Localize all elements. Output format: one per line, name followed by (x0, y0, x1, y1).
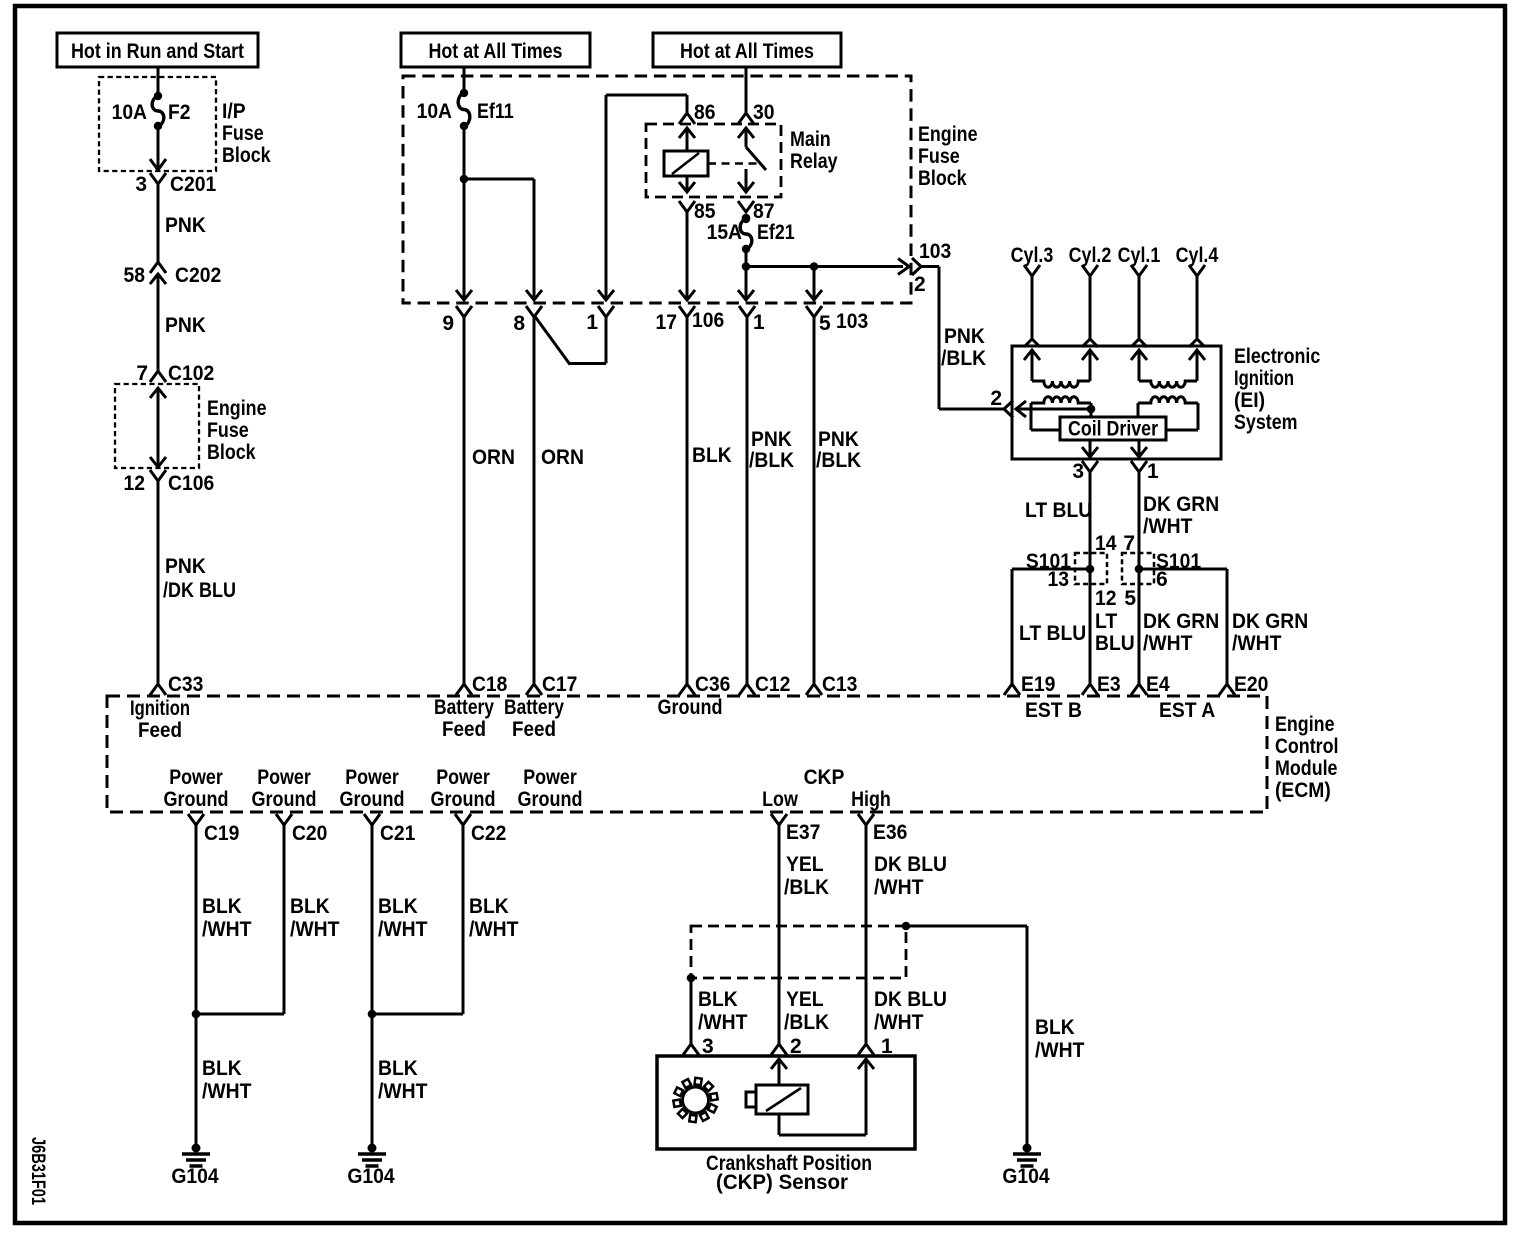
connector E20 (1219, 673, 1268, 696)
svg-text:Cyl.3: Cyl.3 (1011, 244, 1054, 267)
svg-text:DK BLU: DK BLU (874, 988, 947, 1011)
svg-text:C19: C19 (204, 822, 239, 845)
svg-text:7: 7 (1123, 532, 1135, 555)
svg-text:PNK: PNK (165, 314, 206, 337)
svg-text:Control: Control (1275, 735, 1339, 758)
wire DK GRN/WHT pin1 to S101 (1139, 472, 1219, 684)
svg-text:LT BLU: LT BLU (1019, 622, 1086, 645)
svg-text:Ground: Ground (431, 788, 496, 811)
svg-text:Battery: Battery (504, 696, 564, 719)
svg-text:Cyl.4: Cyl.4 (1176, 244, 1219, 267)
svg-text:C13: C13 (822, 673, 857, 696)
ground G104 right (1002, 1144, 1050, 1189)
svg-text:F2: F2 (168, 101, 191, 124)
svg-text:BLK: BLK (698, 988, 738, 1011)
svg-text:Battery: Battery (434, 696, 494, 719)
svg-text:Block: Block (222, 144, 271, 167)
svg-text:5: 5 (819, 312, 831, 335)
connector E36 (858, 814, 907, 844)
svg-text:ORN: ORN (472, 446, 515, 469)
ECM pin label Power Ground 5 (518, 766, 583, 811)
svg-text:58: 58 (124, 264, 146, 287)
wire ORN pin8 to C17 (534, 317, 584, 684)
svg-text:C20: C20 (292, 822, 327, 845)
ignition coil primary right (1138, 397, 1198, 430)
wire branch to pin 8 (464, 179, 542, 300)
svg-text:C102: C102 (168, 362, 214, 385)
wire into engine fuse block (463, 67, 466, 92)
ECM pin label Ignition Feed (130, 697, 190, 742)
svg-text:DK GRN: DK GRN (1232, 610, 1308, 633)
svg-text:17: 17 (656, 311, 678, 334)
svg-text:3: 3 (1072, 460, 1084, 483)
svg-text:2: 2 (990, 387, 1002, 410)
svg-text:Fuse: Fuse (207, 419, 249, 442)
junction C19/C20 (192, 1010, 284, 1019)
svg-text:E20: E20 (1234, 673, 1268, 696)
connector E4 (1131, 673, 1170, 696)
CKP shield dashed box (691, 926, 906, 978)
ECM pin label Power Ground 3 (340, 766, 405, 811)
svg-text:EST B: EST B (1025, 699, 1082, 722)
svg-text:Hot at All Times: Hot at All Times (680, 39, 814, 63)
svg-text:Engine: Engine (207, 397, 267, 420)
engine fuse block label (918, 123, 978, 190)
svg-text:BLK: BLK (469, 895, 509, 918)
svg-text:EST A: EST A (1159, 699, 1215, 722)
relay dashed actuator link (708, 162, 758, 165)
svg-text:/WHT: /WHT (202, 1080, 252, 1103)
EI output pin 3 (1072, 440, 1098, 483)
svg-text:Ef11: Ef11 (477, 100, 514, 123)
svg-text:/WHT: /WHT (202, 918, 252, 941)
EI internal arrow Cyl.1 (1131, 350, 1147, 381)
svg-text:Hot in Run and Start: Hot in Run and Start (71, 39, 244, 63)
svg-text:/BLK: /BLK (941, 347, 986, 370)
connector C13 (806, 673, 857, 696)
wire YEL/BLK E37 (779, 825, 829, 1044)
svg-text:BLK: BLK (290, 895, 330, 918)
junction Ef21 to 103 (742, 262, 751, 271)
wire BLK/WHT C20 (284, 825, 340, 1014)
svg-text:Feed: Feed (512, 718, 556, 741)
title box Hot at All Times (right) (653, 33, 841, 67)
spark plug lead Cyl.1 (1118, 244, 1161, 347)
svg-text:7: 7 (136, 362, 148, 385)
wire PNK C202 to C102 (158, 274, 206, 371)
svg-text:Ground: Ground (164, 788, 229, 811)
svg-text:Power: Power (169, 766, 223, 789)
wire PNK C201 to C202 (158, 184, 206, 262)
connector C36 (679, 673, 730, 696)
wire to relay pin 30 (745, 67, 748, 113)
connector C19 (188, 814, 239, 845)
engine fuse block dashed box (403, 76, 911, 303)
ECM pin label Battery Feed C17 (504, 696, 564, 741)
svg-text:/WHT: /WHT (469, 918, 519, 941)
svg-text:/WHT: /WHT (1143, 515, 1193, 538)
wire PNK/BLK pin5 to C13 (814, 317, 861, 684)
svg-text:Power: Power (257, 766, 311, 789)
wire BLK/WHT C19 (196, 825, 252, 1150)
svg-text:Ground: Ground (252, 788, 317, 811)
svg-text:C36: C36 (695, 673, 730, 696)
svg-text:Hot at All Times: Hot at All Times (429, 39, 563, 63)
svg-text:85: 85 (694, 200, 716, 223)
svg-text:C21: C21 (380, 822, 416, 845)
CKP pickup sensor symbol (746, 1085, 808, 1114)
svg-text:/WHT: /WHT (1143, 632, 1193, 655)
svg-text:DK GRN: DK GRN (1143, 493, 1219, 516)
svg-text:Electronic: Electronic (1234, 345, 1321, 368)
svg-text:C18: C18 (472, 673, 508, 696)
svg-text:Ground: Ground (340, 788, 405, 811)
wire LT BLU splice to E3 (1095, 610, 1135, 655)
CKP pin 1 connector (858, 1044, 874, 1055)
junction shield to ground wire (902, 922, 911, 931)
svg-text:Relay: Relay (790, 150, 838, 173)
svg-text:10A: 10A (112, 101, 147, 124)
wire BLK/WHT shield to G104 (906, 926, 1085, 1150)
svg-text:DK GRN: DK GRN (1143, 610, 1219, 633)
fuse box pin 9 (442, 306, 472, 335)
svg-text:System: System (1234, 411, 1298, 434)
EI internal arrow Cyl.3 (1024, 350, 1040, 381)
ignition coil primary left (1031, 397, 1091, 430)
svg-text:Cyl.2: Cyl.2 (1069, 244, 1112, 267)
connector C21 (364, 814, 416, 845)
CKP internal wire sensor to pin 1 (779, 1114, 866, 1135)
svg-text:Ef21: Ef21 (757, 221, 795, 244)
svg-text:CKP: CKP (804, 766, 845, 789)
svg-text:1: 1 (1147, 460, 1159, 483)
wire PNK/DK BLU C106 to ECM C33 (158, 481, 236, 684)
connector C12 (739, 673, 790, 696)
svg-text:Fuse: Fuse (918, 145, 960, 168)
connector C33 at ECM (150, 673, 203, 696)
engine fuse block (left) label (207, 397, 267, 464)
wire to connector 103 (746, 265, 903, 268)
svg-text:106: 106 (692, 309, 724, 332)
I/P fuse block dashed box (99, 77, 216, 171)
fuse F2 10A (112, 92, 191, 130)
connector C22 (455, 814, 506, 845)
svg-text:Main: Main (790, 128, 831, 151)
svg-text:10A: 10A (417, 100, 452, 123)
svg-text:87: 87 (753, 200, 775, 223)
svg-text:/DK BLU: /DK BLU (163, 579, 236, 602)
svg-text:Power: Power (523, 766, 577, 789)
connector E3 (1082, 673, 1121, 696)
wire PNK/BLK pin1 to C12 (747, 317, 794, 684)
wire through left engine fuse block (150, 388, 166, 467)
CKP internal arrow pin 1 (858, 1059, 874, 1135)
svg-text:C33: C33 (168, 673, 203, 696)
CKP pin 1 wire label (874, 988, 947, 1058)
svg-text:8: 8 (513, 312, 525, 335)
svg-text:5: 5 (1124, 587, 1136, 610)
EI output pin 1 (1131, 440, 1159, 483)
EI pin 2 connector (990, 387, 1013, 418)
I/P fuse block label (222, 100, 271, 167)
svg-text:PNK: PNK (165, 555, 206, 578)
svg-text:/BLK: /BLK (784, 876, 829, 899)
wire PNK/BLK 103 to EI pin 2 (920, 267, 1005, 410)
svg-text:Module: Module (1275, 757, 1338, 780)
svg-text:/BLK: /BLK (784, 1011, 829, 1034)
wire BLK/WHT C22 (463, 825, 519, 1014)
svg-text:/WHT: /WHT (1232, 632, 1282, 655)
svg-text:(ECM): (ECM) (1275, 779, 1331, 802)
spark plug lead Cyl.4 (1176, 244, 1219, 347)
svg-text:G104: G104 (171, 1165, 219, 1188)
svg-text:Ignition: Ignition (130, 697, 190, 720)
relay pin 87 connector (738, 200, 775, 223)
svg-text:14: 14 (1095, 532, 1117, 555)
svg-text:E4: E4 (1146, 673, 1170, 696)
wire BLK/WHT C21 (372, 825, 428, 1150)
junction branch to pin 5 (806, 262, 822, 300)
svg-text:Ground: Ground (658, 696, 723, 719)
svg-text:/WHT: /WHT (1035, 1039, 1085, 1062)
wire BLK pin17 to C36 (687, 317, 732, 684)
svg-text:6: 6 (1156, 568, 1168, 591)
wire from title box to fuse F2 (157, 67, 160, 95)
connector E19 (1004, 673, 1055, 696)
wire fuse F2 to C201 (157, 127, 160, 170)
svg-text:(EI): (EI) (1234, 389, 1265, 412)
ignition coil secondary left (1032, 381, 1090, 387)
coil driver box U1 (1060, 417, 1166, 441)
svg-text:C202: C202 (175, 264, 221, 287)
svg-text:Power: Power (345, 766, 399, 789)
title box Hot at All Times (left) (401, 33, 590, 67)
relay pin 30 (738, 101, 775, 147)
svg-text:YEL: YEL (786, 853, 824, 876)
CKP pin 3 connector (683, 1044, 699, 1055)
svg-text:/WHT: /WHT (698, 1011, 748, 1034)
svg-text:BLK: BLK (202, 1057, 242, 1080)
ECM pin label Power Ground 1 (164, 766, 229, 811)
svg-text:30: 30 (753, 101, 775, 124)
arrow into C201 (150, 159, 166, 170)
ECM pin label Power Ground 2 (252, 766, 317, 811)
splice S101 right (1122, 532, 1201, 610)
relay pin 85 connector (679, 200, 716, 223)
svg-text:Feed: Feed (138, 719, 182, 742)
wire Ef21 down to pin 1 (738, 250, 754, 300)
svg-text:Feed: Feed (442, 718, 486, 741)
main relay dashed box (646, 124, 781, 197)
svg-text:103: 103 (836, 310, 868, 333)
svg-text:12: 12 (124, 472, 146, 495)
svg-text:I/P: I/P (222, 100, 246, 123)
svg-text:BLU: BLU (1095, 632, 1135, 655)
svg-text:Engine: Engine (918, 123, 978, 146)
svg-text:9: 9 (442, 312, 454, 335)
svg-text:BLK: BLK (202, 895, 242, 918)
junction Ef11 branch (460, 175, 469, 184)
svg-text:Ground: Ground (518, 788, 583, 811)
engine fuse block (left) dashed box (115, 384, 199, 468)
EI system box (1012, 346, 1221, 459)
svg-text:J6B31F01: J6B31F01 (27, 1137, 48, 1205)
svg-text:Low: Low (762, 788, 798, 811)
svg-text:E36: E36 (873, 821, 907, 844)
svg-text:Cyl.1: Cyl.1 (1118, 244, 1161, 267)
svg-text:13: 13 (1048, 568, 1070, 591)
svg-text:PNK: PNK (751, 428, 792, 451)
ECM pin label Battery Feed C18 (434, 696, 494, 741)
connector C106 pin 12 (124, 470, 215, 495)
wire Ef11 to pin 9 (456, 127, 472, 300)
wire pin1 jog to pin8 (535, 317, 606, 365)
wire BLK/WHT to left G104 (202, 1057, 252, 1103)
svg-text:C201: C201 (170, 173, 216, 196)
svg-text:BLK: BLK (378, 895, 418, 918)
CKP sensor label (706, 1152, 872, 1194)
svg-text:C22: C22 (471, 822, 506, 845)
svg-text:G104: G104 (347, 1165, 395, 1188)
wire DK GRN/WHT splice to E4 (1143, 610, 1219, 655)
connector C102 pin 7 (136, 362, 214, 385)
svg-text:C12: C12 (755, 673, 790, 696)
svg-text:BLK: BLK (378, 1057, 418, 1080)
junction C21/C22 (368, 1010, 463, 1019)
wire LT BLU pin3 to S101 (1025, 472, 1092, 684)
relay coil to pin 85 (679, 176, 695, 192)
ignition coil secondary right (1139, 381, 1197, 387)
svg-text:Ignition: Ignition (1234, 367, 1294, 390)
fuse box pin 8 (513, 306, 542, 335)
fuse Ef21 15A (707, 214, 795, 254)
connector C201 pin 3 (135, 173, 216, 196)
fuse box pin 1 (C12 side) (739, 306, 765, 334)
main relay label (790, 128, 838, 173)
splice S101 left (1026, 532, 1117, 610)
fuse box pin 17 106 (656, 306, 725, 334)
EI system label (1234, 345, 1321, 434)
svg-text:1: 1 (586, 311, 598, 334)
svg-text:86: 86 (694, 101, 716, 124)
connector 103 pin 2 inline (898, 240, 951, 296)
svg-text:Power: Power (436, 766, 490, 789)
connector C202 pin 58 (124, 262, 222, 287)
relay coil (664, 151, 708, 176)
wire relay pin 86 loop to pin 1 (598, 95, 687, 300)
svg-text:C106: C106 (168, 472, 214, 495)
wire pin 85 to fuse box edge (679, 212, 695, 300)
connector C20 (276, 814, 327, 845)
wire DK BLU/WHT E36 (866, 825, 947, 1044)
svg-text:YEL: YEL (786, 988, 824, 1011)
svg-text:/WHT: /WHT (378, 1080, 428, 1103)
CKP internal arrow pin 2 (771, 1059, 787, 1085)
svg-text:2: 2 (914, 273, 926, 296)
CKP sensor box (657, 1056, 915, 1149)
CKP pin 2 wire label (784, 988, 829, 1058)
svg-text:103: 103 (919, 240, 951, 263)
svg-text:/BLK: /BLK (816, 449, 861, 472)
title box Hot in Run and Start (57, 33, 258, 67)
svg-text:LT: LT (1095, 610, 1117, 633)
ECM label (1275, 713, 1339, 802)
svg-text:PNK: PNK (165, 214, 206, 237)
connector E37 (771, 814, 820, 844)
svg-text:BLK: BLK (1035, 1016, 1075, 1039)
svg-text:/WHT: /WHT (378, 918, 428, 941)
svg-text:C17: C17 (542, 673, 577, 696)
spark plug lead Cyl.2 (1069, 244, 1112, 347)
svg-text:BLK: BLK (692, 444, 732, 467)
svg-text:Fuse: Fuse (222, 122, 264, 145)
EI internal arrow Cyl.4 (1189, 350, 1205, 381)
svg-text:1: 1 (753, 311, 765, 334)
svg-text:PNK: PNK (944, 325, 985, 348)
svg-text:DK BLU: DK BLU (874, 853, 947, 876)
ECM dashed box (107, 696, 1267, 812)
CKP pin 2 connector (771, 1044, 787, 1055)
relay switch to pin 87 (738, 169, 754, 192)
svg-text:12: 12 (1095, 587, 1117, 610)
svg-text:PNK: PNK (818, 428, 859, 451)
EI pin 2 internal arrow (1016, 401, 1095, 417)
svg-text:Coil Driver: Coil Driver (1068, 418, 1158, 441)
CKP pin 3 wire label (698, 988, 748, 1058)
CKP reluctor gear (673, 1078, 717, 1122)
svg-text:E37: E37 (786, 821, 820, 844)
wire DK GRN/WHT splice to E20 (1139, 569, 1308, 684)
svg-text:/WHT: /WHT (290, 918, 340, 941)
fuse box pin 5 103 (806, 306, 868, 335)
ECM pin label Power Ground 4 (431, 766, 496, 811)
fuse Ef11 10A (417, 89, 514, 130)
svg-text:LT BLU: LT BLU (1025, 499, 1092, 522)
svg-text:Block: Block (207, 441, 256, 464)
connector C18 (456, 673, 508, 696)
relay switch blade (746, 147, 766, 170)
svg-text:3: 3 (135, 173, 147, 196)
connector C17 (526, 673, 577, 696)
svg-text:Engine: Engine (1275, 713, 1335, 736)
wire LT BLU splice to E19 (1012, 569, 1090, 684)
fuse box pin 1 (C18 side) (586, 306, 614, 334)
svg-text:(CKP) Sensor: (CKP) Sensor (716, 1171, 848, 1194)
ground G104 mid (347, 1144, 395, 1189)
relay pin 86 (679, 101, 716, 151)
svg-text:High: High (851, 788, 891, 811)
svg-text:15A: 15A (707, 221, 742, 244)
svg-text:/BLK: /BLK (749, 449, 794, 472)
ground G104 left (171, 1144, 219, 1189)
svg-text:/WHT: /WHT (874, 876, 924, 899)
svg-text:E19: E19 (1021, 673, 1055, 696)
svg-text:/WHT: /WHT (874, 1011, 924, 1034)
svg-text:Block: Block (918, 167, 967, 190)
svg-text:G104: G104 (1002, 1165, 1050, 1188)
junction shield to CKP pin 3 (687, 974, 696, 1044)
EI internal arrow Cyl.2 (1082, 350, 1098, 381)
svg-text:ORN: ORN (541, 446, 584, 469)
wire ORN pin9 to C18 (464, 317, 515, 684)
svg-text:E3: E3 (1097, 673, 1121, 696)
spark plug lead Cyl.3 (1011, 244, 1054, 347)
wire BLK/WHT to mid G104 (378, 1057, 428, 1103)
